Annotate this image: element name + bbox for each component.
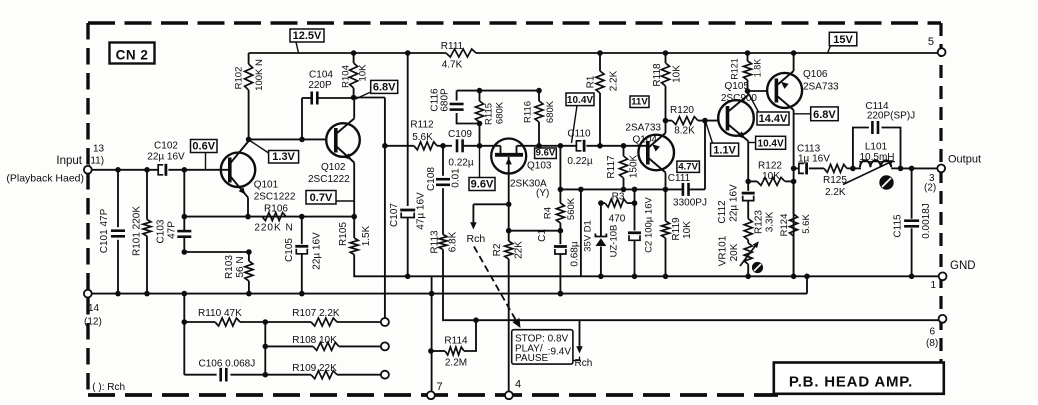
riser R3 to collector net — [634, 189, 636, 203]
junction R102/collector Q101 — [246, 137, 252, 143]
terminal R109 — [381, 371, 389, 379]
svg-text:C111: C111 — [668, 173, 691, 184]
resistor R117 — [623, 146, 625, 156]
capacitor C116 — [456, 91, 458, 101]
wire collector Q102 to signal node — [354, 97, 385, 99]
svg-text:C2 100µ 16V: C2 100µ 16V — [644, 197, 655, 253]
svg-text:C112: C112 — [717, 200, 728, 224]
junction R116 bottom / FET drain — [536, 143, 542, 149]
junction rail2/C101 — [115, 291, 121, 297]
svg-text:R110 47K: R110 47K — [198, 308, 242, 319]
pin 6 — [939, 315, 947, 323]
Rch arrow from source node — [472, 204, 474, 223]
dashed border bottom — [88, 393, 778, 397]
junction R1/base wire — [597, 143, 603, 149]
FET Q103 2SK30A — [491, 139, 526, 174]
svg-text:13: 13 — [93, 144, 105, 155]
voltage label 9.6V right — [535, 148, 557, 159]
junction R117 bottom — [621, 187, 627, 193]
svg-text:4.7K: 4.7K — [442, 60, 463, 71]
junction R115 top — [477, 88, 483, 94]
junction L101 left — [850, 166, 856, 172]
dashed border left — [86, 23, 89, 395]
resistor R124 — [793, 181, 795, 214]
resistor R105 — [353, 217, 355, 238]
resistor R119 — [665, 189, 667, 221]
svg-text:0.6V: 0.6V — [192, 141, 215, 153]
svg-text:470: 470 — [609, 214, 626, 225]
junction R104/C104/collector Q102 — [351, 95, 357, 101]
svg-text:12.5V: 12.5V — [293, 30, 322, 42]
power rail 12.5V/15V — [249, 52, 446, 54]
junction R121/collector Q105/base Q106 — [745, 88, 751, 94]
input terminal pin 14 — [84, 290, 92, 298]
junction ground/C115 — [909, 274, 915, 280]
svg-text:C115: C115 — [893, 214, 904, 238]
adjuster mark L101 — [879, 175, 893, 189]
CN2 connector label — [110, 43, 155, 64]
svg-text:R119: R119 — [671, 217, 682, 241]
svg-text:Output: Output — [948, 154, 981, 166]
junction R122 left — [745, 179, 751, 185]
svg-text:1: 1 — [931, 280, 937, 291]
GND terminal pin 1 — [939, 272, 947, 280]
left column bottom block — [264, 322, 266, 375]
svg-text:R109 22K: R109 22K — [292, 363, 337, 374]
svg-text:R115: R115 — [484, 103, 495, 125]
wire B — [509, 230, 561, 232]
svg-text:0.22µ: 0.22µ — [448, 158, 473, 169]
junction R3 right — [632, 200, 638, 206]
junction L101 right — [898, 166, 904, 172]
junction ground/VR101 — [745, 274, 751, 280]
transistor Q101 2SC1222 — [221, 153, 255, 187]
svg-text:R112: R112 — [410, 120, 434, 131]
svg-text:220K N: 220K N — [254, 223, 293, 234]
svg-text:15V: 15V — [833, 34, 853, 46]
capacitor C105 — [301, 217, 303, 244]
resistor R106 — [262, 213, 286, 221]
svg-text:R118: R118 — [652, 63, 663, 87]
inductor L101 — [860, 160, 891, 167]
transistor Q106 2SA733 — [767, 73, 802, 108]
capacitor C109 — [456, 139, 459, 152]
svg-text:C107: C107 — [389, 203, 400, 227]
junction input/C101 — [115, 167, 121, 173]
PB HEAD AMP title box — [774, 363, 944, 394]
capacitor C114 across L101 — [853, 128, 869, 169]
junction R115/C116 bottom — [477, 121, 483, 127]
svg-text:R3: R3 — [612, 192, 625, 203]
svg-text:0.7V: 0.7V — [310, 192, 333, 204]
resistor R120 — [666, 120, 673, 122]
svg-text:1.3V: 1.3V — [272, 151, 295, 163]
svg-text:(8): (8) — [926, 338, 938, 349]
svg-text:220P: 220P — [308, 80, 332, 91]
svg-text:(Y): (Y) — [536, 188, 549, 199]
zener diode D1 UZ-10B — [600, 203, 602, 236]
resistor R2 — [508, 204, 510, 241]
STOP PLAY PAUSE voltage box — [512, 330, 573, 364]
junction C104 left — [299, 137, 305, 143]
junction R116 top — [536, 88, 542, 94]
pin 4 — [505, 391, 513, 399]
wire row2 to R103 — [184, 251, 249, 253]
wire drain node to C110 — [539, 145, 577, 147]
junction collector Q106 output — [791, 166, 797, 172]
svg-text:R121: R121 — [730, 58, 740, 80]
resistor R118 — [665, 53, 667, 63]
junction R118/R120/emitter Q104 — [663, 118, 669, 124]
svg-text:3300PJ: 3300PJ — [673, 198, 707, 209]
junction R117 top — [621, 143, 627, 149]
dashed annotation arrow to STOP box — [474, 247, 516, 320]
svg-text:R108 10K: R108 10K — [292, 335, 337, 346]
collector net wire — [560, 188, 682, 190]
svg-text:20K: 20K — [729, 243, 740, 261]
adjuster mark VR101 — [752, 262, 763, 273]
svg-text:R107 2.2K: R107 2.2K — [292, 308, 340, 319]
svg-text:2SC1222: 2SC1222 — [254, 192, 296, 203]
svg-text:Q102: Q102 — [321, 162, 346, 173]
svg-text:R106: R106 — [264, 204, 288, 215]
svg-text:0.0018J: 0.0018J — [921, 203, 932, 239]
svg-text:0.68µ: 0.68µ — [570, 241, 581, 266]
junction signal takeoff — [382, 143, 388, 149]
svg-text:C109: C109 — [448, 129, 472, 140]
junction rail/R118 — [663, 50, 669, 56]
voltage label 11V — [630, 96, 649, 108]
svg-text:C102: C102 — [154, 141, 178, 152]
svg-text:C103: C103 — [156, 219, 167, 243]
svg-text:Q103: Q103 — [527, 161, 552, 172]
svg-text:L101: L101 — [865, 142, 888, 153]
voltage label 6.8V output side — [811, 107, 839, 121]
junction rail/C107 — [405, 50, 411, 56]
junction C108 node — [440, 143, 446, 149]
svg-text:Q101: Q101 — [254, 179, 279, 190]
svg-text:6: 6 — [930, 327, 936, 338]
wire descender to collector net — [559, 146, 561, 190]
junction C105/row1 — [299, 214, 305, 220]
svg-text:C101 47P: C101 47P — [99, 208, 110, 253]
resistor R103 — [248, 252, 250, 261]
svg-text:10K: 10K — [358, 64, 369, 82]
Rch arrow at pin6 wire — [579, 320, 581, 347]
svg-text:PAUSE: PAUSE — [515, 353, 548, 364]
svg-text:R122: R122 — [758, 161, 782, 172]
svg-text:Q104: Q104 — [633, 135, 658, 146]
svg-text:C110: C110 — [567, 129, 591, 140]
svg-text:R114: R114 — [444, 336, 468, 347]
svg-text:C105: C105 — [284, 238, 295, 262]
junction C103/row1 — [182, 214, 188, 220]
voltage label 1.3V — [269, 151, 299, 164]
svg-text:Q106: Q106 — [803, 69, 828, 80]
svg-text:P.B. HEAD AMP.: P.B. HEAD AMP. — [789, 374, 913, 391]
capacitor C102 — [158, 165, 163, 175]
svg-text:56 N: 56 N — [235, 256, 246, 277]
svg-text:(Playback Haed): (Playback Haed) — [6, 173, 84, 185]
capacitor C107 supply decoupling — [407, 53, 409, 206]
junction ground/D1 — [598, 274, 604, 280]
svg-text:R2: R2 — [492, 243, 503, 256]
svg-text:9.6V: 9.6V — [471, 179, 494, 191]
dashed border top — [88, 21, 941, 25]
svg-text::9.4V: :9.4V — [548, 347, 572, 358]
junction R3 left / D1 — [598, 200, 604, 206]
pin 7 — [427, 391, 435, 399]
svg-text:0.01: 0.01 — [451, 168, 462, 188]
svg-text:1.8K: 1.8K — [753, 59, 763, 78]
svg-text:10K: 10K — [672, 65, 683, 83]
ground rail 1 — [408, 275, 939, 277]
junction R114 riser — [473, 317, 479, 323]
output wire — [901, 167, 938, 169]
riser pin7 — [431, 276, 433, 391]
svg-text:1.5K: 1.5K — [361, 225, 372, 246]
svg-text:(11): (11) — [87, 156, 104, 167]
resistor R102 — [248, 53, 250, 64]
junction row1/R105/Q102 emitter — [351, 214, 357, 220]
svg-text:47µ 16V: 47µ 16V — [416, 192, 427, 230]
terminal R107 — [381, 318, 389, 326]
junction source Q103 — [506, 202, 512, 208]
capacitor C2 — [634, 203, 636, 230]
voltage label 4.7V — [677, 161, 700, 172]
resistor R1 — [599, 53, 601, 71]
voltage label 10.4V emitter Q105 — [756, 136, 786, 149]
resistor R108 — [265, 345, 313, 347]
svg-text:4: 4 — [515, 379, 521, 391]
svg-text:7: 7 — [437, 381, 443, 393]
resistor R112 — [414, 142, 437, 150]
resistor R123 — [744, 219, 752, 240]
svg-text:47P: 47P — [167, 221, 178, 239]
resistor R101 — [146, 170, 148, 220]
svg-text:R102: R102 — [234, 67, 245, 90]
junction Q101 emitter/row1 — [245, 214, 251, 220]
svg-text:R103: R103 — [224, 255, 235, 279]
svg-text:2SA733: 2SA733 — [625, 123, 661, 134]
resistor R114 — [431, 350, 445, 352]
capacitor C113 — [799, 163, 804, 173]
svg-text:1.1V: 1.1V — [713, 144, 736, 156]
input wire — [92, 169, 159, 171]
svg-text:5.6K: 5.6K — [412, 132, 433, 143]
junction ground/R124 — [791, 274, 797, 280]
wire R105 to ground rail — [354, 255, 408, 277]
svg-text:4.7V: 4.7V — [678, 162, 698, 173]
resistor R121 — [747, 53, 749, 61]
junction R4 top — [558, 187, 564, 193]
svg-text:R4: R4 — [543, 207, 554, 219]
wire base Q102 node — [249, 138, 327, 140]
junction C103/row2 — [182, 249, 188, 255]
svg-text:14: 14 — [88, 303, 100, 314]
svg-text:R1: R1 — [586, 75, 597, 88]
wire base Q106 — [748, 90, 768, 92]
svg-text:2SC1222: 2SC1222 — [308, 174, 350, 185]
resistor R110 — [184, 321, 215, 323]
capacitor C111 — [682, 183, 685, 196]
svg-text:14.4V: 14.4V — [759, 113, 788, 125]
output terminal pin 3 — [937, 165, 945, 173]
resistor R104 — [353, 53, 355, 63]
svg-text:R116: R116 — [523, 101, 534, 123]
svg-text:(12): (12) — [84, 317, 102, 328]
svg-text:10K: 10K — [682, 221, 693, 239]
voltage label 10.4V at C110 — [566, 93, 594, 106]
svg-text:680P: 680P — [440, 88, 451, 112]
junction R115 bottom node — [477, 143, 483, 149]
junction rail/Q106 emitter — [791, 50, 797, 56]
pin 5 — [938, 48, 946, 56]
svg-text:2.2M: 2.2M — [445, 358, 467, 369]
capacitor C112 — [747, 181, 749, 190]
junction rail2/C1 — [558, 291, 564, 297]
svg-text:6.8K: 6.8K — [448, 231, 459, 252]
svg-text:10.4V: 10.4V — [567, 95, 593, 106]
junction rail/R121 — [745, 50, 751, 56]
resistor R109 — [265, 374, 311, 376]
descender to ground — [580, 189, 582, 276]
junction rail2/C105 — [299, 291, 305, 297]
terminal R108 — [381, 342, 389, 350]
resistor R116 — [538, 91, 540, 101]
svg-text:680K: 680K — [495, 101, 506, 124]
svg-text:3.3K: 3.3K — [765, 211, 776, 232]
svg-text:R120: R120 — [670, 105, 694, 116]
svg-text:5: 5 — [928, 36, 934, 48]
voltage label 15V — [829, 32, 857, 46]
capacitor C1 — [559, 231, 561, 245]
junction C110 left / descender — [558, 143, 564, 149]
capacitor C110 — [576, 141, 581, 151]
junction rail2/R101 — [144, 291, 150, 297]
svg-text:100K N: 100K N — [254, 59, 265, 91]
svg-text:8.2K: 8.2K — [674, 126, 695, 137]
svg-text:22µ 16V: 22µ 16V — [312, 232, 323, 270]
svg-text:2SA733: 2SA733 — [803, 82, 839, 93]
svg-text:2.2K: 2.2K — [825, 187, 846, 198]
capacitor C103 — [183, 170, 185, 231]
svg-text:R123: R123 — [754, 210, 765, 234]
svg-text:Input: Input — [56, 155, 82, 167]
capacitor C106 — [184, 374, 216, 376]
svg-text:6.8V: 6.8V — [813, 109, 836, 121]
svg-text:CN 2: CN 2 — [116, 48, 149, 63]
junction ground/C107 — [405, 274, 411, 280]
svg-text:C108: C108 — [426, 167, 437, 191]
input terminal pin 13 — [84, 166, 92, 174]
resistor R3 — [601, 202, 605, 204]
row1 emitter wire — [184, 216, 354, 218]
resistor R111 in rail — [446, 49, 476, 57]
potentiometer VR101 — [747, 240, 749, 243]
junction rail2/C1 marker — [558, 291, 564, 297]
svg-text:560K: 560K — [566, 197, 577, 220]
signal wire — [385, 145, 414, 147]
svg-text:GND: GND — [950, 260, 976, 272]
junction Q105 base pointer — [702, 118, 708, 124]
svg-text:R124: R124 — [779, 214, 790, 237]
capacitor C115 — [911, 168, 913, 218]
junction Q104 collector/R119 — [663, 187, 669, 193]
voltage label 9.6V left — [469, 178, 495, 191]
transistor Q104 2SA733 — [638, 135, 674, 171]
rail2 input common — [92, 293, 807, 295]
voltage label 12.5V — [290, 29, 324, 42]
riser from rail2 bottom-left — [183, 294, 185, 375]
svg-text:R105: R105 — [338, 222, 349, 246]
svg-text:5.6K: 5.6K — [801, 214, 812, 234]
junction C115 top — [909, 166, 915, 172]
capacitor C104 — [301, 98, 303, 139]
junction rail/R1 — [597, 50, 603, 56]
svg-text:10K: 10K — [762, 171, 780, 182]
svg-text:22µ 16V: 22µ 16V — [147, 152, 185, 163]
junction input/R101 — [144, 167, 150, 173]
svg-text:R104: R104 — [341, 65, 352, 88]
resistor R125 — [824, 164, 847, 172]
voltage label 0.6V — [191, 140, 218, 153]
resistor R122 — [757, 177, 785, 185]
svg-text:10.4V: 10.4V — [758, 139, 784, 150]
svg-text:C106 0.068J: C106 0.068J — [199, 359, 256, 370]
resistor R115 — [479, 91, 481, 101]
svg-text:C1: C1 — [537, 229, 548, 242]
voltage label 6.8V first — [371, 80, 398, 93]
svg-text:R113: R113 — [430, 230, 441, 254]
svg-text:9.6V: 9.6V — [536, 148, 556, 159]
svg-text:1µ 16V: 1µ 16V — [798, 154, 830, 165]
svg-text:(2): (2) — [924, 183, 936, 194]
svg-text:6.8V: 6.8V — [373, 82, 396, 94]
svg-text:VR101: VR101 — [718, 235, 729, 266]
junction R3 riser — [632, 187, 638, 193]
svg-text:220P(SP)J: 220P(SP)J — [867, 111, 915, 122]
resistor R4 — [559, 189, 561, 203]
junction R122 right — [791, 179, 797, 185]
svg-text:11V: 11V — [631, 97, 648, 108]
resistor R107 — [265, 321, 311, 323]
svg-text:2.2K: 2.2K — [609, 70, 620, 91]
junction ground/C2 — [632, 274, 638, 280]
svg-text:22µ 16V: 22µ 16V — [729, 184, 740, 222]
svg-text:Rch: Rch — [467, 233, 486, 245]
voltage label 1.1V — [711, 143, 739, 156]
svg-text:Rch: Rch — [575, 358, 593, 369]
svg-text:R101 220K: R101 220K — [132, 206, 143, 256]
rail2 to rail1 link — [806, 276, 808, 293]
transistor Q105 2SC900 — [718, 100, 754, 136]
junction rail2/R103 — [246, 291, 252, 297]
transistor Q102 2SC1222 — [326, 123, 360, 157]
voltage label 0.7V — [306, 191, 336, 205]
svg-text:22K: 22K — [514, 241, 525, 259]
capacitor C101 — [117, 170, 119, 227]
junction ground/R119 — [663, 274, 669, 280]
bias wire for FET — [457, 90, 539, 92]
svg-text:680K: 680K — [545, 100, 556, 123]
junction descender/collector net — [578, 187, 584, 193]
dashed border right — [939, 23, 942, 363]
svg-text:R111: R111 — [441, 41, 464, 52]
wire A source node — [473, 203, 508, 205]
svg-text:R117: R117 — [606, 155, 617, 179]
svg-text:UZ-10B: UZ-10B — [609, 225, 620, 258]
